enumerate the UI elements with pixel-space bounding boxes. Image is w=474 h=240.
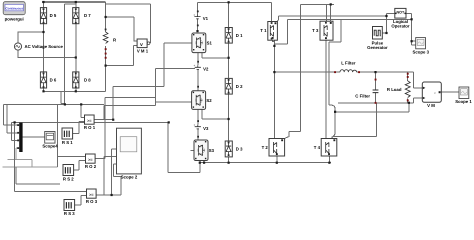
wire gate bus y16 (279, 15, 387, 17)
wire mux in3 (12, 122, 20, 140)
svg-text:R O 1: R O 1 (84, 125, 96, 130)
svg-text:D 2: D 2 (236, 84, 243, 89)
svg-text:R S 3: R S 3 (64, 211, 75, 215)
wire S1 bottom-left to V2 (197, 53, 199, 66)
wire D3 bottom to rail (228, 157, 230, 163)
svg-text:D 6: D 6 (50, 78, 57, 83)
mosfet S3 (194, 140, 215, 161)
AC Voltage Source (14, 43, 21, 50)
wire RO1 out to S1 gate (94, 43, 192, 120)
wire mux in2 (7, 104, 19, 132)
repeating stair RS3 (64, 200, 75, 216)
svg-text:L Filter: L Filter (341, 61, 356, 66)
mosfet S1 (192, 33, 213, 53)
svg-text:Scope 1: Scope 1 (455, 99, 472, 104)
svg-text:C Filter: C Filter (355, 93, 370, 98)
repeating stair RS1 (62, 128, 73, 145)
wire gate bus y19 (287, 18, 411, 20)
wire rail to D7 top (75, 2, 77, 8)
svg-text:Operator: Operator (391, 23, 409, 28)
wire VM1 minus return (106, 46, 138, 66)
wire T3 top riser (301, 4, 334, 21)
svg-text:T 1: T 1 (260, 28, 267, 33)
wire parallel drop x60.9 (61, 91, 64, 103)
red node markers (105, 48, 107, 50)
wire RO2 out to S2 gate (95, 69, 195, 159)
igbt T2 (262, 139, 285, 157)
svg-text:>=: >= (88, 157, 93, 162)
svg-text:S2: S2 (206, 98, 212, 103)
svg-text:D 7: D 7 (84, 13, 91, 18)
svg-text:D 8: D 8 (84, 78, 91, 83)
wire load bottom rail (338, 98, 422, 103)
wire RS1 to RO1 in2 (73, 122, 85, 134)
Pulse Generator (367, 27, 388, 50)
junction dots (42, 1, 44, 3)
Scope4 (42, 132, 58, 149)
wire rail y2.3 V1 to T1 (198, 1, 272, 3)
wire R top tap to VM1 plus (106, 17, 138, 41)
wire AC plus to bridge (18, 32, 44, 43)
svg-text:V3: V3 (203, 126, 209, 131)
wire pulse out junction (382, 13, 395, 33)
wire D column top (228, 2, 230, 27)
svg-text:D 3: D 3 (236, 147, 243, 152)
wire T1 gate hook (277, 16, 279, 21)
diode D1 (225, 28, 243, 44)
diode D8 (73, 72, 92, 88)
wire midpoint tap riser (274, 19, 287, 44)
diode D6 (40, 72, 56, 88)
wire R bottom down (105, 46, 107, 91)
svg-text:R O 2: R O 2 (85, 164, 97, 169)
wire bottom bus y104 (4, 103, 105, 105)
svg-text:+: + (194, 123, 196, 127)
igbt T4 (314, 139, 337, 157)
svg-text:Generator: Generator (367, 45, 388, 50)
wire S2 bottom-left to V3 (197, 109, 199, 124)
wire load return y111 (335, 103, 409, 112)
dc source V3 (194, 123, 209, 131)
wire S2 bottom-right node y119 (202, 109, 229, 119)
powergui block (3, 2, 25, 15)
wire VM1 output riser (106, 4, 151, 43)
svg-text:>=: >= (89, 192, 94, 197)
svg-text:Scope 2: Scope 2 (121, 174, 138, 179)
wire T2 emitter to rail (276, 156, 278, 163)
igbt T1 (260, 22, 277, 41)
wire R load column (407, 72, 409, 103)
wire load top rail (357, 72, 423, 88)
svg-text:T 4: T 4 (314, 145, 321, 150)
port squares (43, 8, 45, 10)
svg-text:NOT: NOT (397, 11, 406, 15)
wire S3 bottoms to rail (200, 161, 204, 163)
wire S3 gate stub (191, 149, 195, 151)
svg-text:>=: >= (87, 118, 92, 123)
svg-text:V M: V M (427, 103, 435, 108)
wire AC minus to bridge (18, 50, 76, 58)
wire D1 to D2 (228, 43, 230, 78)
svg-text:R O 3: R O 3 (86, 199, 98, 204)
svg-text:S3: S3 (209, 148, 215, 153)
svg-text:v: v (434, 91, 436, 95)
Scope 2 (117, 128, 142, 179)
wire NOT out riser (406, 13, 412, 45)
wire RO2 in1 feed (57, 104, 85, 167)
svg-text:R S 2: R S 2 (63, 177, 74, 182)
svg-text:T 2: T 2 (262, 145, 269, 150)
svg-text:Scope 3: Scope 3 (413, 49, 430, 54)
wire carrier drop to S3 bottom loop (168, 122, 200, 172)
svg-text:powergui: powergui (5, 17, 24, 22)
svg-text:R Load: R Load (387, 87, 402, 92)
svg-text:D 1: D 1 (236, 33, 243, 38)
svg-text:+: + (193, 13, 195, 17)
wire T3 gate stub (330, 4, 332, 21)
wire S1 bottom-right to D column (202, 53, 229, 58)
wire V2 to S2 top (197, 70, 199, 91)
svg-text:V1: V1 (203, 16, 209, 21)
repeating stair RS2 (63, 165, 74, 182)
wire D7 bottom to D8 top (75, 24, 77, 72)
Scope 1 (455, 87, 472, 104)
capacitor C Filter (355, 90, 378, 98)
dc source V2 (194, 64, 209, 72)
igbt T3 (312, 21, 333, 40)
relational operator RO1 (84, 115, 96, 130)
svg-text:D 5: D 5 (50, 13, 57, 18)
wire mux in4 loop (3, 148, 58, 167)
wire RO1 in1 feed (81, 104, 84, 117)
wire bridge output drop x64 (64, 4, 76, 105)
svg-text:Continuous: Continuous (5, 6, 23, 10)
svg-text:V M 1: V M 1 (137, 49, 149, 54)
wire VM out to Scope1 (441, 91, 459, 93)
relational operator RO2 (85, 154, 97, 169)
wire lower left loop (16, 167, 60, 184)
svg-text:Scope4: Scope4 (42, 144, 58, 149)
wire V1 top stub (197, 2, 199, 14)
wire bottom rail y162 (200, 162, 331, 164)
wire RS3 to RO3 in2 (75, 196, 87, 205)
wire T4 gate riser (329, 19, 341, 105)
wire inverter output y72 to L filter (274, 71, 340, 73)
Scope 3 (413, 38, 430, 55)
resistor R (103, 32, 108, 43)
wire scope3 in1 stub (412, 40, 416, 42)
wire T1 top from rail (271, 2, 273, 21)
diode D7 (73, 8, 92, 24)
wire D5 bottom to D6 top (43, 24, 45, 72)
svg-text:V2: V2 (203, 67, 209, 72)
diode D3 (225, 141, 243, 157)
wire T4 emitter to rail (328, 156, 330, 163)
relational operator RO3 (86, 189, 98, 204)
voltage measurement VM1 (137, 39, 147, 48)
wire rail down to R top (105, 2, 107, 32)
wire T1 emitter to T2 collector (273, 40, 275, 138)
Logical Operator NOT (391, 8, 409, 28)
wire rail to D5 top (43, 2, 45, 8)
svg-text:v: v (140, 42, 143, 48)
wire mux in1 (4, 104, 20, 125)
wire T3 emitter to T4 collector (325, 40, 327, 138)
svg-text:S1: S1 (207, 40, 213, 45)
wire C filter column (375, 72, 377, 103)
wire gate bus drop x300 to T2 gate (284, 4, 301, 138)
wire RO3 out bus to scope2 feeds (96, 149, 121, 195)
wire RO3 in1 feed (15, 122, 87, 191)
wire T4 gate bulge (329, 105, 335, 139)
dc source V1 (193, 13, 208, 21)
svg-text:T 3: T 3 (312, 28, 319, 33)
wire carrier long y122 (12, 121, 169, 123)
wire V1 to S1 top (197, 19, 199, 31)
wire top thick rail bridge+ (42, 1, 106, 3)
diode D5 (40, 8, 56, 24)
wire C column extension return (333, 103, 377, 137)
mux (19, 123, 22, 152)
resistor R Load (387, 81, 410, 98)
mosfet S2 (192, 91, 213, 110)
wire V3 to S3 top (197, 129, 199, 140)
svg-text:AC Voltage Source: AC Voltage Source (25, 44, 64, 49)
wire D6 D8 bottoms to R column (44, 88, 106, 91)
wire mux out to Scope4 (23, 136, 45, 138)
svg-text:+: + (194, 64, 196, 68)
diode D2 (225, 78, 243, 94)
voltage measurement VM (422, 82, 441, 108)
wire RS2 to RO2 in2 (74, 161, 86, 170)
wire scope3 in2 stub (412, 44, 416, 46)
wire D2 to D3 (228, 94, 230, 141)
inductor L Filter (340, 61, 357, 73)
svg-text:R S 1: R S 1 (62, 140, 73, 145)
